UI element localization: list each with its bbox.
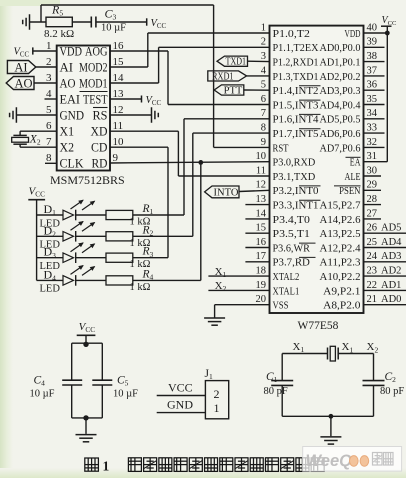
wire reset rail to RST <box>41 5 270 147</box>
label W77E58 <box>298 320 339 332</box>
pin8 stub CLK <box>45 162 57 164</box>
svg-text:AD4: AD4 <box>381 237 402 248</box>
svg-text:24: 24 <box>367 251 378 262</box>
svg-text:2: 2 <box>214 387 220 401</box>
svg-text:10: 10 <box>256 151 267 162</box>
svg-text:RS: RS <box>93 108 108 122</box>
LED D2 <box>37 222 95 251</box>
svg-text:80 pF: 80 pF <box>264 386 288 397</box>
pin4 stub EAI <box>45 98 57 100</box>
capacitor C5 <box>92 343 138 418</box>
svg-text:AD2,P0.2: AD2,P0.2 <box>320 71 361 83</box>
ground at VSS <box>204 318 225 325</box>
wire crystal top left <box>282 353 327 355</box>
svg-text:11: 11 <box>113 120 124 132</box>
svg-text:MSM7512BRS: MSM7512BRS <box>50 173 125 187</box>
svg-text:1: 1 <box>103 459 110 474</box>
svg-text:27: 27 <box>367 208 378 219</box>
svg-text:33: 33 <box>367 123 378 134</box>
ground at GND pin5 <box>10 107 57 123</box>
svg-text:AD3,P0.3: AD3,P0.3 <box>320 85 361 97</box>
svg-text:PSEN: PSEN <box>339 185 361 197</box>
wire junction down to R4 <box>200 162 202 280</box>
svg-text:P1.3,TXD1: P1.3,TXD1 <box>273 71 319 83</box>
svg-text:AD1,P0.1: AD1,P0.1 <box>320 57 361 69</box>
crystal X1 <box>328 346 339 361</box>
svg-text:14: 14 <box>113 72 125 84</box>
svg-text:AO: AO <box>60 76 76 90</box>
wire ground to R5 <box>30 21 47 23</box>
Vcc terminal pin1 <box>14 47 33 59</box>
svg-text:25: 25 <box>367 237 378 248</box>
svg-text:4: 4 <box>261 65 267 76</box>
svg-text:18: 18 <box>256 266 267 277</box>
resistor R3 <box>76 246 154 271</box>
svg-text:35: 35 <box>367 94 378 105</box>
svg-text:GND: GND <box>60 108 85 122</box>
svg-text:5: 5 <box>261 80 266 91</box>
svg-text:22: 22 <box>367 280 378 291</box>
svg-text:29: 29 <box>367 180 378 191</box>
junction top C4C5 <box>83 342 88 347</box>
svg-text:5: 5 <box>46 104 52 116</box>
svg-text:A9,P2.1: A9,P2.1 <box>323 285 360 297</box>
svg-text:VDD: VDD <box>60 44 83 58</box>
svg-text:8: 8 <box>261 123 266 134</box>
wire R5 to C3 <box>72 21 91 23</box>
wire crystal top right <box>338 353 373 355</box>
svg-text:AD6,P0.6: AD6,P0.6 <box>320 128 362 140</box>
svg-text:36: 36 <box>367 80 378 91</box>
svg-text:TEST: TEST <box>83 92 108 106</box>
svg-text:A10,P2.2: A10,P2.2 <box>320 271 361 283</box>
capacitor C4 <box>30 343 83 418</box>
junction VDD pin40 <box>385 31 390 36</box>
Vcc terminal at TEST pin13 <box>110 95 162 107</box>
watermark WeeQoo weiku <box>303 447 402 472</box>
svg-text:ALE: ALE <box>345 171 361 183</box>
svg-text:A12,P2.4: A12,P2.4 <box>320 242 362 254</box>
svg-text:1: 1 <box>46 40 52 52</box>
wire R1 to P1.6/INT4 <box>133 119 270 215</box>
LED D1 <box>37 200 95 229</box>
ground at RS pin12 <box>110 107 158 123</box>
op IC U1 MSM7512BRS body <box>57 46 110 171</box>
wire MOD2 to P1.0/T2 <box>110 33 270 67</box>
svg-text:7: 7 <box>46 136 52 148</box>
ground crystal <box>320 437 341 444</box>
svg-text:CLK: CLK <box>60 157 84 171</box>
svg-text:AO: AO <box>14 76 32 90</box>
svg-text:P1.0,T2: P1.0,T2 <box>273 28 310 40</box>
svg-text:31: 31 <box>367 151 378 162</box>
net labels AD5-AD0 <box>381 223 402 306</box>
svg-text:INTO: INTO <box>214 188 239 199</box>
svg-text:AI: AI <box>60 60 74 74</box>
Vcc rail EA <box>386 33 388 162</box>
resistor R5 <box>44 3 74 41</box>
svg-text:38: 38 <box>367 51 378 62</box>
Vcc terminal (LED rail) <box>28 186 45 200</box>
capacitor C1 <box>264 354 294 417</box>
svg-text:XD: XD <box>91 125 108 139</box>
svg-text:10: 10 <box>113 136 125 148</box>
svg-text:3: 3 <box>46 72 52 84</box>
Vcc terminal top right <box>381 15 397 33</box>
wire R4 to RD junction <box>133 279 201 281</box>
svg-text:AD7,P0.6: AD7,P0.6 <box>320 142 362 154</box>
svg-text:6: 6 <box>46 120 52 132</box>
label X1 (crystal right) <box>342 341 354 354</box>
resistor R1 <box>76 203 154 228</box>
svg-text:AD5: AD5 <box>381 223 401 234</box>
svg-text:1 kΩ: 1 kΩ <box>130 282 151 293</box>
svg-text:10 µF: 10 µF <box>113 389 138 400</box>
svg-text:A11,P2.3: A11,P2.3 <box>320 257 361 269</box>
LED D4 <box>37 266 95 295</box>
svg-text:P3.3,INT1: P3.3,INT1 <box>273 200 319 212</box>
capacitor C2 <box>363 354 405 417</box>
tag RXD1 <box>208 71 270 83</box>
tag AO <box>6 76 57 90</box>
svg-text:W77E58: W77E58 <box>298 320 339 332</box>
svg-text:EAI: EAI <box>60 92 81 106</box>
svg-text:32: 32 <box>367 137 378 148</box>
svg-text:16: 16 <box>113 40 125 52</box>
svg-text:13: 13 <box>256 194 267 205</box>
svg-text:30: 30 <box>367 165 378 176</box>
svg-text:AI: AI <box>14 60 27 74</box>
svg-text:X1: X1 <box>60 125 75 139</box>
svg-text:EA: EA <box>350 157 361 169</box>
svg-text:VSS: VSS <box>273 300 289 312</box>
wire R2 to P1.7/INT5 <box>133 133 270 236</box>
svg-text:P1.1,T2EX: P1.1,T2EX <box>273 42 319 54</box>
svg-text:P3.4,T0: P3.4,T0 <box>273 214 310 226</box>
svg-text:MOD1: MOD1 <box>79 76 108 90</box>
wire crystal to X2 pin <box>20 144 57 147</box>
wire XD to P3.1/TXD <box>110 131 270 176</box>
terminal X1 to XTAL2 <box>208 266 269 279</box>
svg-text:VDD: VDD <box>345 28 361 40</box>
svg-text:28: 28 <box>367 194 378 205</box>
svg-text:RXD1: RXD1 <box>212 71 234 82</box>
pin1 stub VDD <box>33 50 57 52</box>
Vcc terminal (C4C5) <box>77 321 96 343</box>
svg-text:P3.7,RD: P3.7,RD <box>273 257 311 269</box>
svg-text:10 µF: 10 µF <box>30 389 55 400</box>
svg-text:80 pF: 80 pF <box>380 386 404 397</box>
tag AI <box>7 60 56 74</box>
terminal X2 (crystal) <box>367 341 379 354</box>
svg-text:16: 16 <box>256 237 267 248</box>
svg-text:X2: X2 <box>60 141 75 155</box>
svg-text:12: 12 <box>256 180 267 191</box>
svg-text:VCC: VCC <box>168 380 193 394</box>
svg-text:RD: RD <box>92 157 108 171</box>
svg-text:39: 39 <box>367 37 378 48</box>
tag PTT <box>214 85 269 97</box>
svg-text:2: 2 <box>46 56 52 68</box>
svg-text:9: 9 <box>261 137 266 148</box>
svg-text:23: 23 <box>367 266 378 277</box>
svg-text:AD1: AD1 <box>381 280 401 291</box>
svg-text:40: 40 <box>367 22 378 33</box>
svg-text:12: 12 <box>113 104 124 116</box>
svg-text:2: 2 <box>261 37 266 48</box>
svg-text:20: 20 <box>256 294 267 305</box>
svg-text:10 µF: 10 µF <box>101 23 126 34</box>
svg-text:8.2 kΩ: 8.2 kΩ <box>44 28 74 40</box>
resistor R2 <box>76 224 154 249</box>
svg-text:37: 37 <box>367 65 378 76</box>
wire C3 to Vcc <box>96 21 147 23</box>
wire GND to J1 <box>157 398 206 413</box>
svg-text:14: 14 <box>256 208 267 219</box>
svg-text:8: 8 <box>46 152 52 164</box>
Vcc rail wire <box>36 200 38 281</box>
MCU U2 W77E58 body <box>270 26 364 313</box>
svg-text:A13,P2.5: A13,P2.5 <box>320 228 361 240</box>
svg-text:P1.7,INT5: P1.7,INT5 <box>273 128 319 140</box>
svg-text:P1.6,INT4: P1.6,INT4 <box>273 114 320 126</box>
tag TXD1 <box>217 56 270 68</box>
resistor R4 <box>76 268 154 293</box>
svg-text:GND: GND <box>167 398 193 412</box>
svg-text:19: 19 <box>256 280 267 291</box>
svg-text:TXD1: TXD1 <box>226 57 247 68</box>
wire X1 to crystal <box>20 131 57 135</box>
ground C4C5 <box>76 435 97 442</box>
svg-text:P3.5,T1: P3.5,T1 <box>273 228 310 240</box>
svg-text:13: 13 <box>113 88 125 100</box>
svg-text:A15,P2.7: A15,P2.7 <box>320 200 362 212</box>
svg-text:AD0: AD0 <box>381 294 401 305</box>
ground symbol (R5 left) <box>23 14 30 30</box>
VSS ground wire <box>215 305 270 318</box>
tag INT0 <box>205 186 270 199</box>
wire VCC to J1 <box>157 380 206 395</box>
ground stub crystal <box>330 416 332 436</box>
capacitor C3 <box>91 7 126 34</box>
svg-text:P1.2,RXD1: P1.2,RXD1 <box>273 57 319 69</box>
svg-text:P3.0,RXD: P3.0,RXD <box>273 157 316 169</box>
svg-text:AD2: AD2 <box>381 266 401 277</box>
svg-text:XTAL2: XTAL2 <box>273 271 300 283</box>
svg-text:15: 15 <box>113 56 125 68</box>
svg-text:15: 15 <box>256 223 267 234</box>
caption: Fig.1 transmitter modem schematic title <box>85 458 324 474</box>
crystal X2 <box>12 134 41 147</box>
svg-text:CD: CD <box>91 141 108 155</box>
chip2 right pin stubs <box>364 33 406 305</box>
svg-text:MOD2: MOD2 <box>79 60 108 74</box>
svg-text:P3.6,WR: P3.6,WR <box>273 242 311 254</box>
wire R3 to CD <box>133 257 168 259</box>
svg-text:P3.1,TXD: P3.1,TXD <box>273 171 316 183</box>
svg-text:P1.5,INT3: P1.5,INT3 <box>273 99 319 111</box>
svg-text:1: 1 <box>214 401 220 415</box>
svg-text:11: 11 <box>256 165 266 176</box>
chip2 pin labels and numbers <box>256 22 378 311</box>
svg-text:34: 34 <box>367 108 378 119</box>
svg-text:AD3: AD3 <box>381 251 401 262</box>
svg-text:AD4,P0.4: AD4,P0.4 <box>320 99 362 111</box>
chip1 pin labels and numbers <box>46 40 124 171</box>
terminal X1 (crystal) <box>293 341 305 354</box>
terminal X2 to XTAL1 <box>208 280 269 293</box>
svg-text:6: 6 <box>261 94 266 105</box>
label MSM7512BRS <box>50 173 125 187</box>
wire crystal bottom <box>282 415 373 417</box>
svg-text:17: 17 <box>256 251 267 262</box>
svg-text:7: 7 <box>261 108 266 119</box>
wire AOG to P1.5/INT3 <box>110 51 270 105</box>
svg-text:P1.4,INT2: P1.4,INT2 <box>273 85 319 97</box>
wire loop bottom <box>72 417 103 419</box>
svg-text:26: 26 <box>367 223 378 234</box>
svg-text:P3.2,INT0: P3.2,INT0 <box>273 185 319 197</box>
svg-text:PTT: PTT <box>224 86 243 97</box>
svg-text:4: 4 <box>46 88 52 100</box>
wire RD to P3.0/RXD <box>110 162 270 163</box>
svg-text:21: 21 <box>367 294 378 305</box>
junction bottom C4C5 <box>83 415 88 420</box>
svg-text:WeeQ: WeeQ <box>306 452 353 470</box>
svg-text:XTAL1: XTAL1 <box>273 285 300 297</box>
svg-text:A14,P2.6: A14,P2.6 <box>320 214 362 226</box>
connector J1 box <box>205 368 229 419</box>
wire MOD1 to P1.1/T2EX <box>110 47 270 83</box>
Vcc terminal (reset RC) <box>147 18 167 30</box>
svg-text:AD5,P0.5: AD5,P0.5 <box>320 114 361 126</box>
chip2 stub pins 13-17 <box>245 205 269 262</box>
svg-text:1: 1 <box>261 22 266 33</box>
wire loop top <box>72 342 103 344</box>
svg-text:LED: LED <box>40 284 61 295</box>
junction node RD/R4 <box>198 160 203 165</box>
LED D3 <box>37 243 95 272</box>
svg-text:RST: RST <box>273 142 289 154</box>
wire CD down to R3 <box>110 147 168 258</box>
ground stub C4C5 <box>85 418 87 434</box>
junction crystal ground <box>329 414 334 419</box>
svg-text:AOG: AOG <box>85 44 108 58</box>
svg-text:3: 3 <box>261 51 266 62</box>
svg-text:A8,P2.0: A8,P2.0 <box>323 300 360 312</box>
svg-text:AD0,P0.0: AD0,P0.0 <box>320 42 361 54</box>
